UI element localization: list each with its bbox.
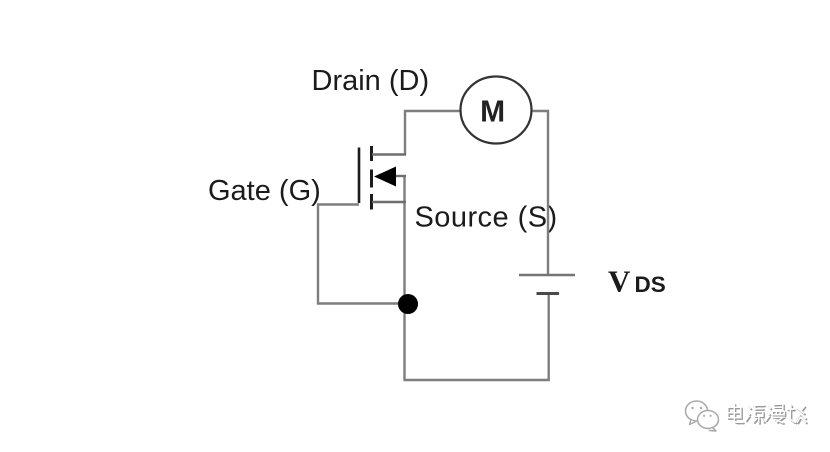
漫 xyxy=(767,406,786,425)
wire drain vertical and horizontal to motor xyxy=(405,111,461,155)
battery V1 top plate (long) xyxy=(519,274,575,277)
transistor Q1 source connection xyxy=(372,201,406,203)
源 xyxy=(746,405,764,423)
svg-text:Gate (G): Gate (G) xyxy=(208,175,321,207)
svg-text:Drain (D): Drain (D) xyxy=(312,65,430,97)
transistor Q1 drain connection xyxy=(372,153,406,155)
watermark wechat icon xyxy=(686,401,719,431)
transistor Q1 channel dash top xyxy=(370,146,373,161)
源 xyxy=(747,407,765,425)
电 xyxy=(729,405,744,424)
漫 xyxy=(766,404,785,423)
battery V1 bottom plate (short) xyxy=(537,292,560,295)
wire motor right to top of battery xyxy=(531,111,548,274)
transistor Q1 channel dash bottom xyxy=(370,194,373,210)
transistor Q1 body connection xyxy=(395,175,406,177)
transistor Q1 channel dash middle xyxy=(370,170,373,188)
transistor Q1 body-diode arrow xyxy=(374,167,396,187)
电 xyxy=(728,404,743,423)
wire gate lead (left, down, right to junction) xyxy=(318,205,406,304)
watermark text 电源漫谈 (drawn strokes, embossed) xyxy=(729,405,807,424)
谈 xyxy=(789,406,808,424)
motor U1 circle xyxy=(461,77,532,144)
svg-text:V: V xyxy=(608,264,631,299)
watermark logo group xyxy=(686,401,808,431)
transistor Q1 gate bar xyxy=(358,148,361,204)
wire battery bottom down and along bottom to source xyxy=(404,294,549,380)
svg-text:M: M xyxy=(480,93,505,128)
谈 xyxy=(787,404,806,422)
svg-text:Source (S): Source (S) xyxy=(415,202,558,234)
svg-text:DS: DS xyxy=(635,272,666,297)
node junction dot xyxy=(398,294,418,314)
wire source vertical (body tap down through junction to bottom wire) xyxy=(403,176,405,380)
